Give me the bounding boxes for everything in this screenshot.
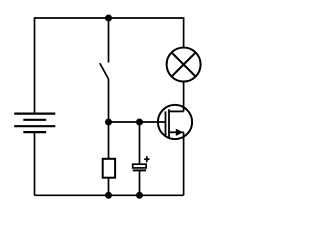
- capacitor C1 plus sign: [144, 156, 149, 162]
- battery B1: [14, 114, 55, 133]
- capacitor C1 bottom plate: [133, 169, 146, 171]
- node resistor bottom junction: [105, 192, 112, 199]
- switch S1 blade: [100, 63, 109, 79]
- wire capacitor bottom lead: [139, 171, 141, 195]
- wire top rail: [35, 17, 184, 19]
- node capacitor top junction: [136, 119, 143, 126]
- wire left rail upper (to battery +): [34, 17, 36, 113]
- node gate-resistor junction: [105, 119, 112, 126]
- node capacitor bottom junction: [136, 192, 143, 199]
- wire lamp to mosfet drain: [183, 82, 185, 112]
- lamp L1: [167, 48, 201, 82]
- transistor Q1 gate bar: [165, 111, 167, 136]
- transistor Q1 source arrow: [176, 129, 183, 136]
- wire resistor top lead: [108, 122, 110, 159]
- transistor Q1 channel bar: [168, 109, 170, 138]
- resistor R1: [103, 159, 115, 178]
- transistor Q1 source line: [169, 131, 184, 133]
- wire capacitor top lead: [139, 122, 141, 164]
- wire gate lead: [109, 121, 166, 123]
- wire switch bottom lead: [108, 79, 110, 122]
- capacitor C1 top plate: [133, 164, 146, 168]
- wire switch top lead: [108, 18, 110, 63]
- wire right rail upper (to lamp): [183, 17, 185, 46]
- wire resistor bottom lead: [108, 178, 110, 196]
- wire left rail lower (battery - to bottom rail): [34, 132, 36, 195]
- transistor Q1 drain line: [169, 110, 184, 112]
- wire bottom rail: [35, 194, 184, 196]
- wire mosfet source to bottom rail: [183, 132, 185, 195]
- node top junction: [105, 15, 112, 22]
- transistor Q1 body circle: [158, 105, 192, 139]
